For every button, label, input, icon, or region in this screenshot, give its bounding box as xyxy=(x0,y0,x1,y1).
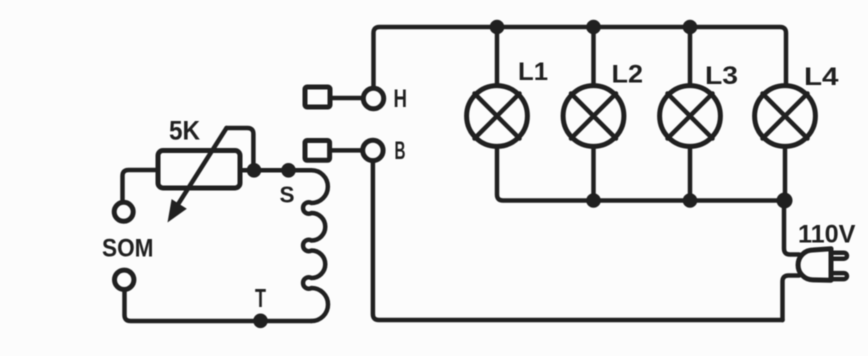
svg-text:SOM: SOM xyxy=(102,235,154,263)
junction dot S xyxy=(281,163,296,178)
wire top bus xyxy=(374,27,787,89)
lamp L1 xyxy=(467,86,528,147)
junction dot L3 bottom xyxy=(683,193,698,208)
svg-text:5K: 5K xyxy=(169,116,200,146)
svg-text:L1: L1 xyxy=(518,58,548,86)
terminal H circle xyxy=(363,88,383,108)
wire plug lower cord xyxy=(783,276,800,321)
wire R1 left terminal xyxy=(123,170,159,202)
svg-text:110V: 110V xyxy=(798,221,856,249)
junction dot L2 bottom xyxy=(586,193,601,208)
terminal B square xyxy=(305,141,330,161)
wire L2 top stub xyxy=(591,27,596,86)
potentiometer R1 body xyxy=(158,151,240,189)
svg-text:B: B xyxy=(395,137,406,165)
junction dot T xyxy=(253,314,268,329)
wire L3 bottom stub xyxy=(688,147,693,201)
junction dot plug branch xyxy=(777,193,793,209)
svg-text:T: T xyxy=(255,283,266,313)
lamp L3 xyxy=(660,86,721,147)
terminal SOM upper circle xyxy=(114,202,133,221)
svg-text:H: H xyxy=(394,85,408,113)
terminal B circle xyxy=(363,140,383,160)
wire B terminal to bottom bus xyxy=(373,161,783,320)
junction dot L2 top xyxy=(586,20,601,35)
svg-text:L3: L3 xyxy=(705,62,738,90)
terminal SOM lower circle xyxy=(115,270,134,289)
wire R1 right terminal to coil xyxy=(240,168,307,173)
wire R1 wiper to right terminal xyxy=(227,128,254,168)
junction dot L3 top xyxy=(683,20,698,35)
wire SOM lower to bottom bus xyxy=(125,290,312,322)
junction dot L1 top xyxy=(490,20,505,35)
wire H square to circle xyxy=(330,96,363,101)
lamp L4 xyxy=(755,86,816,147)
svg-text:S: S xyxy=(280,182,295,208)
wire B square to circle xyxy=(330,148,363,153)
svg-text:L2: L2 xyxy=(612,61,644,89)
connector P1 plug xyxy=(798,249,847,281)
inductor coil xyxy=(303,170,328,321)
svg-text:L4: L4 xyxy=(804,63,839,91)
lamp L2 xyxy=(563,86,624,147)
wire L1 top stub xyxy=(495,27,500,86)
junction dot R1 wiper tap xyxy=(247,163,262,178)
wire L2 bottom stub xyxy=(591,147,596,201)
terminal H square xyxy=(305,87,330,107)
wire L3 top stub xyxy=(688,27,693,86)
wire lamp bottom bus xyxy=(497,147,785,201)
potentiometer R1 wiper arrow xyxy=(168,128,227,223)
wire plug upper cord xyxy=(784,201,799,255)
wire L4 bottom stub xyxy=(783,147,788,201)
